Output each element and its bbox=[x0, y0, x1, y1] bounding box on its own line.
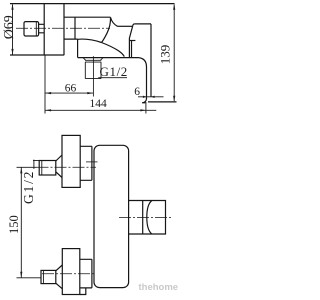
upper knob bbox=[39, 161, 56, 176]
6 dimension line bbox=[138, 96, 164, 98]
upper taper bbox=[56, 155, 62, 178]
body underside step bbox=[64, 39, 78, 57]
G1/2 leader tick (bottom view) bbox=[33, 160, 39, 169]
right knob outline bbox=[129, 201, 166, 235]
right knob centerline bbox=[119, 217, 172, 219]
66 dimension line bbox=[45, 92, 93, 94]
upper cartridge bbox=[62, 135, 80, 187]
handle knob face line bbox=[35, 22, 37, 36]
nut top arc bbox=[133, 24, 135, 25]
down pipe outer edge bbox=[146, 67, 148, 99]
cartridge inner vertical bbox=[74, 17, 76, 39]
svg-text:6: 6 bbox=[134, 86, 140, 98]
handle knob (side view) bbox=[24, 22, 39, 36]
svg-text:139: 139 bbox=[158, 45, 173, 65]
150 upper extension line bbox=[17, 166, 37, 168]
150 lower extension line bbox=[17, 277, 42, 279]
lower taper bbox=[56, 265, 63, 289]
dimension Ø69 line bbox=[12, 5, 14, 55]
pipe end hook bbox=[142, 99, 147, 103]
G1/2 underline (top view) bbox=[98, 77, 127, 79]
svg-text:G1/2: G1/2 bbox=[100, 64, 128, 79]
svg-text:144: 144 bbox=[90, 98, 108, 110]
svg-text:thehome: thehome bbox=[139, 282, 179, 293]
Ø69 bottom extension line bbox=[10, 54, 64, 56]
139 bottom extension bbox=[148, 101, 177, 103]
centerline (dash-dot) of top view bbox=[16, 27, 110, 29]
144 dim arrows bbox=[45, 109, 146, 111]
lower knob bbox=[41, 270, 56, 283]
lower flange bbox=[80, 259, 92, 288]
svg-text:Ø69: Ø69 bbox=[2, 15, 17, 39]
body rear curve down to neck bbox=[111, 17, 118, 26]
139 dim arrows bbox=[173, 4, 175, 102]
lower assembly centerline bbox=[42, 273, 96, 275]
6 dim arrows bbox=[143, 96, 155, 98]
139 dimension line bbox=[173, 5, 175, 102]
lower flange step bbox=[80, 288, 86, 295]
150 dim arrows bbox=[20, 168, 22, 278]
nut second vertical bbox=[131, 41, 133, 58]
dimension Ø69 arrows bbox=[11, 4, 13, 55]
right knob face arc bbox=[147, 201, 152, 234]
66 dim arrows bbox=[45, 92, 93, 94]
upper flange bbox=[80, 146, 92, 180]
svg-text:66: 66 bbox=[65, 83, 77, 95]
escutcheon plate (side view) bbox=[44, 4, 64, 56]
upper knob inner line bbox=[41, 161, 43, 176]
lower cartridge bbox=[62, 249, 80, 295]
nut chamfer diagonal bbox=[129, 25, 133, 57]
right knob flange line bbox=[142, 201, 144, 235]
144 dimension line bbox=[45, 109, 156, 111]
handle stem bbox=[39, 24, 45, 33]
outlet nut bars bbox=[85, 60, 101, 62]
svg-text:150: 150 bbox=[7, 215, 21, 234]
outlet elbow to down pipe bbox=[139, 58, 147, 67]
nut mid horizontal bbox=[129, 40, 135, 42]
body (front view rounded rect) bbox=[94, 145, 129, 287]
wall line bbox=[150, 24, 152, 97]
144 right extension bbox=[145, 104, 147, 114]
body bottom edge bbox=[78, 57, 139, 59]
shower hose outlet nut wings bbox=[83, 58, 103, 61]
body top edge bbox=[64, 16, 111, 18]
150 dimension line bbox=[20, 167, 22, 277]
pipe/flange top edge bbox=[135, 23, 151, 25]
top view: top outline / extension line bbox=[10, 3, 175, 5]
hose nipple bbox=[85, 62, 101, 79]
body rear face curve bbox=[102, 17, 111, 42]
upper inlet leader line bbox=[86, 161, 98, 163]
body lower-rear sweep bbox=[102, 43, 125, 57]
neck top edge bbox=[118, 25, 133, 27]
body inner underside curve bbox=[78, 39, 102, 42]
lower knob inner line bbox=[42, 270, 44, 283]
66 extension / outlet centerline bbox=[92, 56, 94, 96]
left extension line (plate front) bbox=[44, 55, 46, 113]
svg-text:G1/2: G1/2 bbox=[21, 170, 36, 204]
upper assembly centerline bbox=[37, 166, 97, 168]
